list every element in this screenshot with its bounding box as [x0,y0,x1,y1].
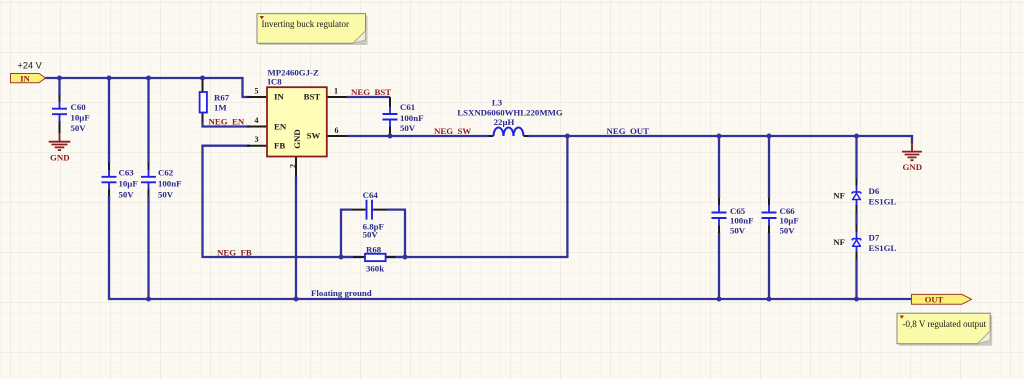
svg-text:100nF: 100nF [158,179,181,189]
wire IC ground pin to floating ground [295,176,297,299]
diode D6 [833,178,896,213]
wire C60 branch [58,78,60,96]
svg-text:NEG SW: NEG SW [434,126,471,136]
junction D7 branch on floating ground rail [854,297,859,302]
svg-text:GND: GND [50,152,70,162]
junction IC8 GND on floating ground rail [294,297,299,302]
svg-text:C60: C60 [71,102,87,112]
svg-text:BST: BST [304,91,321,101]
junction C65 on floating ground rail [717,297,722,302]
svg-text:EN: EN [274,122,287,132]
svg-text:GND: GND [903,162,923,172]
svg-text:1: 1 [334,87,338,96]
svg-text:NEG FB: NEG FB [217,248,252,258]
svg-text:GND: GND [292,129,302,149]
svg-text:50V: 50V [780,226,796,236]
svg-text:L3: L3 [492,98,503,108]
junction C66 on floating ground rail [767,297,772,302]
capacitor C65 [712,198,754,236]
svg-text:50V: 50V [400,123,416,133]
port IN [11,73,46,83]
svg-text:NEG OUT: NEG OUT [607,126,650,136]
svg-text:R68: R68 [366,245,382,255]
IC IC8 MP2460GJ-Z body [267,67,327,156]
note Inverting buck regulator [257,14,368,45]
svg-text:C65: C65 [730,206,746,216]
capacitor C62 [141,163,181,200]
wire EN net segment [203,121,251,127]
svg-text:ES1GL: ES1GL [869,197,897,207]
junction C63 on +24V rail [107,76,112,81]
svg-text:50V: 50V [119,190,135,200]
svg-text:D7: D7 [869,233,880,243]
resistor R67 [200,79,230,122]
junction C66 on NEG_OUT rail [767,134,772,139]
wire +24V main rail [44,78,250,97]
svg-text:10µF: 10µF [780,216,799,226]
junction C62 on +24V rail [146,76,151,81]
svg-text:C63: C63 [119,168,135,178]
note -0,8 V regulated output [897,313,992,346]
svg-text:ES1GL: ES1GL [869,243,897,253]
svg-text:3: 3 [255,135,259,144]
svg-text:Inverting buck regulator: Inverting buck regulator [262,19,349,29]
wire C63 branch [108,78,110,164]
junction C60 on +24V rail [57,76,62,81]
junction feedback tap on NEG_OUT rail [565,134,570,139]
inductor L3 [457,98,563,136]
svg-text:NEG BST: NEG BST [351,87,391,97]
diode D7 [833,225,896,259]
capacitor C64 [352,190,387,239]
junction R67 on +24V rail [200,76,205,81]
port OUT [912,294,972,304]
svg-text:IN: IN [20,73,30,83]
svg-text:D6: D6 [869,186,880,196]
svg-text:C66: C66 [780,206,796,216]
svg-text:22µH: 22µH [494,117,515,127]
junction C62 on floating ground rail [146,297,151,302]
svg-text:FB: FB [274,141,285,151]
svg-text:C64: C64 [363,190,379,200]
junction C65 on NEG_OUT rail [717,134,722,139]
capacitor C63 [102,163,138,200]
svg-text:C62: C62 [158,168,174,178]
svg-text:100nF: 100nF [400,113,423,123]
svg-text:NF: NF [833,237,845,247]
svg-text:10µF: 10µF [119,179,138,189]
svg-text:50V: 50V [71,123,87,133]
svg-text:5: 5 [255,87,259,96]
wire C65 branch [718,136,720,299]
wire floating ground rail [109,196,912,299]
svg-text:NF: NF [833,191,845,201]
wire FB net to NEG_FB rail [203,136,568,257]
ground GND power symbol top right [902,142,922,172]
svg-text:-0,8 V regulated output: -0,8 V regulated output [903,319,987,329]
svg-text:100nF: 100nF [730,216,753,226]
wire C64 loop [341,210,405,257]
svg-text:IC8: IC8 [268,76,283,86]
svg-text:OUT: OUT [925,295,944,305]
wire C66 branch [768,136,770,299]
IC8 pin stubs [247,97,347,177]
svg-text:+24 V: +24 V [18,61,43,71]
capacitor C60 [52,96,90,134]
svg-text:C61: C61 [400,102,415,112]
svg-text:10µF: 10µF [71,113,90,123]
svg-text:1M: 1M [214,103,227,113]
svg-text:Floating ground: Floating ground [311,288,372,298]
junction D6 branch on NEG_OUT rail [854,134,859,139]
svg-text:50V: 50V [363,229,379,239]
wire BST net segment [346,96,390,98]
svg-text:50V: 50V [730,226,746,236]
svg-text:NEG EN: NEG EN [209,117,245,127]
svg-text:2: 2 [289,164,298,168]
ground GND power symbol under C60 [49,133,71,162]
svg-text:4: 4 [255,116,259,125]
wire SW / NEG_OUT rail [346,136,912,144]
svg-text:50V: 50V [158,190,174,200]
resistor R68 [341,245,405,274]
svg-text:SW: SW [307,131,321,141]
svg-text:360k: 360k [366,264,384,274]
capacitor C66 [762,198,799,236]
wire C62 branch [147,78,149,299]
junction C64/R68 left on NEG_FB rail [339,255,344,260]
svg-text:6: 6 [335,126,339,135]
junction C64/R68 right on NEG_FB rail [403,255,408,260]
wire diode branch [855,136,857,299]
capacitor C61 [383,97,424,136]
svg-text:R67: R67 [214,93,230,103]
svg-text:IN: IN [274,91,284,101]
junction C61 on NEG_SW rail [388,134,393,139]
